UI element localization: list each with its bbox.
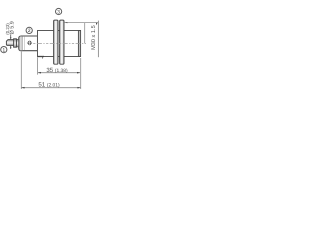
dim line 51 — [22, 87, 81, 89]
svg-text:Ø 5.9: Ø 5.9 — [9, 21, 15, 34]
end cap — [19, 36, 23, 50]
rear housing inner shading line — [24, 37, 26, 50]
thread callout tick — [96, 23, 98, 26]
extension line face — [80, 58, 82, 89]
threaded barrel — [38, 31, 81, 57]
dim line 35 — [38, 72, 80, 74]
callout circle 3 — [56, 8, 62, 14]
extension line left 51 — [20, 52, 22, 90]
dim arrow upper (connector dia) — [10, 34, 12, 38]
connector neck — [16, 39, 18, 46]
LED position diamond — [27, 40, 33, 45]
connector barrel — [6, 40, 13, 46]
thread callout horizontal line — [65, 22, 99, 24]
svg-text:M30 x 1.5: M30 x 1.5 — [91, 25, 97, 50]
nut 2 — [60, 20, 64, 64]
svg-text:51 (2.01): 51 (2.01) — [38, 81, 60, 88]
thread callout drop line — [84, 23, 86, 44]
nut 1 — [54, 20, 58, 64]
extension line thread start — [37, 57, 39, 74]
dim arrow lower (connector dia) — [10, 47, 12, 49]
svg-text:(0.23): (0.23) — [5, 23, 10, 35]
svg-text:1: 1 — [2, 47, 5, 53]
callout circle 1 — [1, 47, 7, 53]
thread dia extent line — [97, 21, 99, 58]
svg-text:35 (1.38): 35 (1.38) — [46, 67, 68, 74]
sensing face band — [78, 31, 80, 57]
background — [0, 0, 100, 100]
svg-text:2: 2 — [28, 28, 31, 34]
connector flange — [14, 39, 17, 47]
callout circle 2 — [26, 27, 32, 33]
rear housing — [19, 36, 38, 51]
svg-text:3: 3 — [57, 9, 60, 15]
centerline — [33, 42, 86, 44]
